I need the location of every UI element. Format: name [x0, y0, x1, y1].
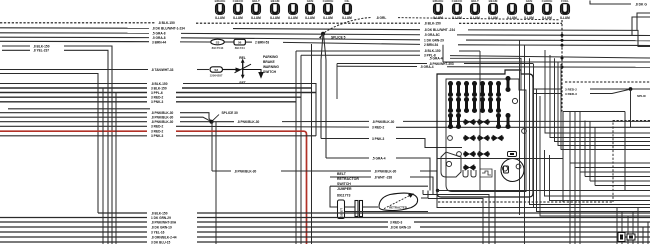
- wire 3 RED-2 right from block: [533, 88, 562, 90]
- svg-text:FUEL: FUEL: [561, 0, 569, 3]
- svg-text:.8 PNK/BLK-30: .8 PNK/BLK-30: [151, 116, 174, 120]
- svg-text:CHOKE: CHOKE: [323, 0, 334, 3]
- indicator lamp L5: [289, 4, 298, 15]
- fuse block small circles: [448, 136, 453, 141]
- vertical v5 x316: [315, 84, 317, 136]
- wire y66 right: [447, 66, 650, 69]
- wire 3 RED-3 diagonal to dot: [590, 90, 629, 94]
- junction dot jumper: [436, 189, 439, 192]
- wire 3 YEL-16 bottom left: [0, 231, 147, 233]
- indicator lamp L4: [271, 4, 280, 15]
- wire A .8 BLK-150 dashed left: [0, 22, 156, 24]
- splice 30 junction: [210, 120, 214, 124]
- wire .8 PNK/WHT-30A bottom right: [197, 221, 650, 223]
- svg-text:3 RED-2: 3 RED-2: [565, 87, 577, 91]
- svg-text:.8 BLK-150: .8 BLK-150: [158, 21, 175, 25]
- svg-text:2 BRN-53: 2 BRN-53: [255, 41, 269, 45]
- indicator lamp R5: [508, 4, 517, 15]
- wire x495 down: [494, 170, 496, 244]
- svg-text:ILLUM: ILLUM: [233, 16, 243, 20]
- svg-text:3 RED-2: 3 RED-2: [151, 130, 163, 134]
- wire 1 DK GRN-29 bottom right: [197, 217, 650, 219]
- indicator lamp L6: [306, 4, 315, 15]
- wire 3 RED-2 lower: [0, 125, 147, 127]
- svg-text:1 DK GRN-29: 1 DK GRN-29: [151, 216, 171, 220]
- vertical x628 drop: [627, 216, 629, 244]
- trunk junction dots: [561, 34, 564, 37]
- svg-text:2 BRN-54: 2 BRN-54: [424, 43, 438, 47]
- fuse block outline inner: [446, 79, 526, 192]
- component box right left edge: [562, 112, 564, 203]
- svg-text:.8 BLK-150: .8 BLK-150: [151, 211, 168, 215]
- svg-text:.8 DK BLU/WHT-1-234: .8 DK BLU/WHT-1-234: [152, 27, 185, 31]
- connector 12064287: [210, 67, 223, 72]
- vertical x519 long: [519, 41, 521, 216]
- vertical x524 long: [524, 45, 526, 244]
- vertical wire v1 x296: [295, 51, 297, 244]
- wire pnk/blk b diag to splice: [180, 117, 212, 122]
- svg-text:3 RED-3: 3 RED-3: [565, 92, 577, 96]
- belt retractor switch teardrop: [379, 193, 418, 211]
- wire jumper row cont: [281, 170, 371, 172]
- dashed right y82: [565, 81, 650, 83]
- svg-text:GEN: GEN: [307, 0, 314, 3]
- svg-text:ILLUM: ILLUM: [342, 16, 352, 20]
- wire 3 RED-2 right: [396, 126, 650, 128]
- splice dot right: [629, 87, 633, 91]
- wire splice 5 branch a: [321, 34, 323, 139]
- indicator lamp R7: [543, 4, 552, 15]
- indicator lamp R4: [489, 4, 498, 15]
- svg-text:SWITCH: SWITCH: [337, 182, 351, 186]
- svg-text:.8 PNK/WHT-30A: .8 PNK/WHT-30A: [151, 220, 177, 224]
- wire pnk/wht-303 left: [337, 63, 427, 65]
- svg-text:REL: REL: [239, 56, 246, 60]
- wire row4 cont: [176, 96, 301, 98]
- wire F .8 BLK-150 mid row: [296, 50, 420, 52]
- wire 3 DK BLU-15 bottom right: [197, 241, 650, 243]
- wire .5 GRA-4 right corner: [396, 158, 430, 191]
- svg-text:S3: S3: [216, 40, 220, 44]
- fuse block bottom cups: [463, 170, 468, 177]
- svg-text:8911773: 8911773: [337, 193, 350, 197]
- wire .8 PNK/WHT-30A bottom left: [0, 221, 147, 223]
- svg-text:56: 56: [238, 41, 242, 45]
- wire stub x337: [336, 64, 338, 100]
- wire row2 cont: [182, 87, 312, 89]
- indicator lamp R8: [561, 4, 570, 15]
- fuse block notch polygon: [441, 152, 461, 177]
- svg-text:3 RED-2: 3 RED-2: [151, 125, 163, 129]
- wire pnk/blk far right: [403, 120, 650, 122]
- svg-text:JUMPER: JUMPER: [337, 187, 352, 191]
- wire splice 5 branch b: [324, 34, 327, 158]
- wire .8 YEL-237 corner x108: [64, 50, 108, 244]
- svg-text:ILLUM: ILLUM: [215, 16, 225, 20]
- splice 5 junction: [321, 32, 325, 36]
- svg-text:CHECK: CHECK: [452, 0, 464, 3]
- wire y194.5 drop: [423, 190, 489, 244]
- svg-text:ILLUM: ILLUM: [251, 16, 261, 20]
- svg-text:1 DK GRN-29: 1 DK GRN-29: [424, 38, 444, 42]
- wire 3 RED-2 red corner: [176, 131, 307, 244]
- wire 3 RED-2 to splice dot: [590, 88, 650, 90]
- component box right right edge: [624, 112, 626, 191]
- wire C .5 GRA-8 left: [0, 32, 149, 34]
- wire B mid: [233, 29, 420, 30]
- wire 1 DK GRN-29 bottom left: [0, 217, 147, 219]
- vertical x216: [215, 122, 217, 244]
- wire .8 BLK-150 bottom left: [98, 212, 147, 214]
- fuse block round connector: [501, 159, 524, 182]
- svg-text:ILLUM: ILLUM: [507, 16, 517, 20]
- wire bars link: [345, 206, 356, 208]
- svg-text:BELT: BELT: [252, 0, 260, 3]
- vertical x622 bottom: [621, 212, 623, 244]
- wire 3 PNK-3 lower: [0, 135, 147, 137]
- svg-text:3 PNK-3: 3 PNK-3: [151, 100, 163, 104]
- belt retractor box outline: [330, 186, 428, 207]
- wire D .5 GRA-8 left2: [0, 36, 149, 38]
- indicator lamp L1: [216, 4, 225, 15]
- svg-text:S3: S3: [214, 68, 218, 72]
- wire .8 BLK-150 bottom right: [197, 212, 650, 214]
- connector 891734: [234, 39, 245, 45]
- wire G right: [450, 56, 650, 58]
- wire .8 YEL-237 stub: [2, 49, 30, 51]
- wire to retractor switch: [363, 206, 379, 208]
- connector S1 8917543: [211, 39, 225, 45]
- wire .8 DK GRN top right: [590, 1, 631, 5]
- svg-text:SWITCH: SWITCH: [263, 70, 277, 74]
- svg-text:.8 TAN/WHT-33: .8 TAN/WHT-33: [151, 68, 174, 72]
- wire pnk/blk c to splice: [180, 121, 212, 123]
- svg-text:3 RED-2: 3 RED-2: [151, 96, 163, 100]
- svg-text:108377: 108377: [340, 207, 344, 216]
- wire pnk/blk joined: [212, 121, 235, 123]
- svg-text:BRAKE: BRAKE: [215, 0, 226, 3]
- retractor dashed arrow: [384, 195, 410, 208]
- svg-text:OIL: OIL: [345, 0, 350, 3]
- svg-text:PARKING: PARKING: [263, 55, 278, 59]
- svg-text:3 PNK-3: 3 PNK-3: [372, 137, 384, 141]
- wire row4 3 RED-2: [0, 96, 147, 98]
- svg-text:.8 DK GRN-19: .8 DK GRN-19: [390, 225, 411, 229]
- svg-text:3 RED-2: 3 RED-2: [372, 126, 384, 130]
- vertical x638 drop: [637, 208, 639, 244]
- wire through block x480: [479, 51, 481, 191]
- wire C mid: [181, 33, 420, 34]
- svg-text:ILLUM: ILLUM: [470, 16, 480, 20]
- wire y207.5 segment: [437, 191, 534, 208]
- svg-text:RETRACTED: RETRACTED: [389, 205, 407, 209]
- svg-text:ILLUM: ILLUM: [270, 16, 280, 20]
- indicator lamp R3: [471, 4, 480, 15]
- wire D mid: [181, 38, 420, 40]
- svg-text:3 RED-3: 3 RED-3: [390, 220, 402, 224]
- svg-text:.8 WHT -238: .8 WHT -238: [374, 175, 392, 179]
- wire F right: [459, 50, 480, 52]
- wire arrow into switch: [223, 69, 236, 71]
- svg-text:GEN: GEN: [526, 0, 533, 3]
- indicator lamp L7: [324, 4, 333, 15]
- wire .8 BLK-150 short stub: [2, 45, 30, 47]
- wire B .8 DK BLU/WHT-234 left: [0, 27, 149, 29]
- wire right y62: [443, 61, 650, 63]
- wire B right corner: [468, 30, 650, 47]
- parking brake switch lever: [242, 61, 244, 77]
- svg-text:.5 GRA-8C: .5 GRA-8C: [424, 33, 440, 37]
- svg-text:BRAKE: BRAKE: [263, 60, 276, 64]
- svg-text:.5 GRA-4: .5 GRA-4: [372, 156, 386, 160]
- vertical x617 bottom: [616, 208, 618, 244]
- wire .8 WHT -238: [330, 176, 371, 178]
- wire y190.5 long: [438, 190, 650, 192]
- wire .8 ORN/BLK-2-44 bottom left: [0, 236, 147, 238]
- wire pnk/blk b: [0, 116, 147, 118]
- wire 3 RED-2 red hot: [0, 130, 147, 132]
- indicator lamp L3: [252, 4, 261, 15]
- stub wire right edge y13: [637, 13, 650, 30]
- wire A dashed mid: [196, 22, 420, 24]
- indicator lamp L2: [234, 4, 243, 15]
- fuse block terminal grid: [448, 76, 511, 129]
- fusible link component: [618, 233, 635, 242]
- svg-text:CHECK: CHECK: [233, 0, 245, 3]
- cascade left verticals: [545, 150, 650, 196]
- wire .8 DK GRN-19 bottom right: [197, 226, 650, 228]
- wire jumper right corner: [420, 171, 437, 191]
- svg-text:.8 DK BLU/WHT -234: .8 DK BLU/WHT -234: [424, 28, 455, 32]
- wire 3 PNK-3 resumed: [321, 138, 369, 140]
- svg-text:.8 PNK/BLK-30: .8 PNK/BLK-30: [234, 169, 257, 173]
- svg-text:3 YEL-16: 3 YEL-16: [151, 230, 165, 234]
- svg-text:SPLIC: SPLIC: [637, 94, 647, 98]
- wire branch corner x98: [0, 74, 98, 214]
- wire 3 PNK-3 lower cont: [176, 135, 316, 137]
- connector bar 108377: [338, 200, 345, 219]
- svg-text:.8 DK GRN-19: .8 DK GRN-19: [151, 225, 172, 229]
- svg-text:3 PNK-3: 3 PNK-3: [151, 134, 163, 138]
- cascade fanA: [545, 50, 650, 133]
- svg-text:ILLUM: ILLUM: [323, 16, 333, 20]
- wire pnk/wht-303 right: [464, 63, 533, 65]
- wire E right: [458, 44, 650, 47]
- switch blade diagonal: [235, 64, 252, 73]
- indicator lamp R2: [453, 4, 462, 15]
- wire E between connectors: [225, 41, 234, 43]
- wire A dashed right: [459, 22, 562, 24]
- stub wire right edge y17 to C: [632, 17, 650, 35]
- wire tan/wht to connector: [197, 69, 209, 71]
- wire row1 cont corner v5: [183, 84, 316, 136]
- svg-text:.8 BLK-150: .8 BLK-150: [151, 82, 168, 86]
- label 3 RED-3 bottom: [388, 219, 414, 224]
- dashed bottom y202: [438, 201, 613, 203]
- fuse block fuses: [463, 119, 504, 171]
- svg-text:.8 PNK/BLK-30: .8 PNK/BLK-30: [151, 111, 174, 115]
- vertical x633 drop: [632, 212, 634, 244]
- dashed corner x613: [613, 121, 650, 203]
- svg-text:.8 ORN/BLK-2-44: .8 ORN/BLK-2-44: [151, 235, 177, 239]
- wire D right: [466, 39, 650, 42]
- svg-text:SPLICE 30: SPLICE 30: [222, 111, 238, 115]
- cascade fanB: [570, 112, 650, 244]
- svg-text:8917543: 8917543: [212, 46, 224, 50]
- svg-text:CHOKE: CHOKE: [542, 0, 553, 3]
- wire wht right corner: [410, 177, 433, 195]
- wire E 2 BRN-53 seg: [246, 41, 253, 43]
- wire .8 TAN/WHT-33: [0, 69, 148, 71]
- fuse block outline outer: [437, 70, 533, 197]
- svg-text:3 BRN-44: 3 BRN-44: [152, 40, 166, 44]
- svg-text:.8 BLK-150: .8 BLK-150: [424, 49, 441, 53]
- wire hook x443: [442, 45, 444, 62]
- connector half bars: [355, 201, 358, 217]
- fuse block squiggle: [480, 169, 492, 177]
- svg-text:BRAKE: BRAKE: [433, 0, 444, 3]
- wire row3 3 PPL-6: [0, 92, 147, 94]
- svg-text:.8 DK G: .8 DK G: [635, 2, 647, 6]
- wire .8 ORN/BLK-2-44 bottom right: [197, 236, 650, 238]
- wire 3 RED-2 lower cont: [176, 125, 369, 128]
- splice 30 leader line: [212, 115, 220, 122]
- vertical x648 drop: [647, 222, 649, 244]
- wire C right: [457, 34, 650, 37]
- svg-text:BEAM: BEAM: [489, 0, 498, 3]
- wire .5 GRA-4 resumed: [326, 157, 369, 159]
- wire 3 DK BLU-15 bottom left: [0, 241, 147, 243]
- vertical x643 drop: [642, 227, 644, 244]
- svg-text:12064287: 12064287: [210, 73, 223, 77]
- indicator lamp R6: [525, 4, 534, 15]
- wire row1 .8 BLK-150: [0, 83, 147, 85]
- wire .8 BLK-150 stub corner x112: [64, 46, 112, 244]
- svg-text:BELT: BELT: [471, 0, 479, 3]
- wire y66 left: [337, 65, 417, 67]
- svg-text:.5 GRA-8: .5 GRA-8: [152, 32, 166, 36]
- wire E 3 BRN-44 left: [0, 40, 149, 42]
- wire pnk/blk a: [0, 112, 147, 114]
- wire pnk/blk-30 jumper row: [212, 170, 231, 172]
- svg-text:WARNING: WARNING: [263, 65, 279, 69]
- wire row3 cont: [176, 92, 316, 94]
- wire pnk/blk c: [0, 121, 147, 123]
- svg-text:.8 PNK/BLK-30: .8 PNK/BLK-30: [151, 120, 174, 124]
- wire .8 GRA dashed diagonal: [325, 17, 373, 32]
- label .8 DK GRN-19 bottom2: [388, 224, 420, 229]
- svg-text:RETRACTOR: RETRACTOR: [337, 177, 359, 181]
- wire pnk/blk a corner to splice: [180, 113, 212, 122]
- svg-text:3 PPL-6: 3 PPL-6: [151, 91, 163, 95]
- vertical x116: [115, 93, 117, 244]
- wire inside block y158.5: [437, 158, 563, 160]
- component box right top: [563, 111, 625, 113]
- indicator lamp L8: [343, 4, 352, 15]
- svg-text:SPLICE 5: SPLICE 5: [331, 36, 346, 40]
- svg-text:3 BLK-150: 3 BLK-150: [151, 86, 167, 90]
- wire .8 GRA dashed right: [398, 18, 560, 20]
- svg-text:BELT: BELT: [337, 172, 347, 176]
- wire row5 cont: [176, 101, 296, 103]
- svg-text:.8 PNK/BLK-30: .8 PNK/BLK-30: [237, 120, 260, 124]
- svg-text:.8 BLK-150: .8 BLK-150: [424, 22, 441, 26]
- svg-text:ILLUM: ILLUM: [305, 16, 315, 20]
- svg-text:.8 YEL-237: .8 YEL-237: [33, 49, 49, 53]
- wire .8 DK GRN-19 bottom left: [0, 226, 147, 228]
- wire drop from right splice: [630, 89, 632, 127]
- switch output wire with ground arrow: [243, 70, 261, 73]
- wire retractor right link: [421, 191, 428, 199]
- wire E to connector S1: [180, 41, 210, 43]
- wire row2 3 BLK-150: [0, 87, 147, 89]
- svg-text:.8 PNK/BLK-30: .8 PNK/BLK-30: [372, 120, 395, 124]
- svg-text:.5 GRA-4: .5 GRA-4: [429, 57, 443, 61]
- wire 3 YEL-16 bottom right: [197, 231, 650, 233]
- svg-text:.8 PNK/BLK-30: .8 PNK/BLK-30: [374, 169, 397, 173]
- svg-text:BEAM: BEAM: [271, 0, 280, 3]
- svg-text:891734: 891734: [235, 46, 245, 50]
- splice 30 drop wire: [211, 122, 213, 171]
- wire 3 PNK-3 right jog: [396, 139, 462, 148]
- svg-text:.8 GRL: .8 GRL: [376, 16, 386, 20]
- svg-text:ILLUM: ILLUM: [560, 16, 570, 20]
- wire y198.5 drop: [428, 195, 483, 244]
- wire stub row y109: [8, 108, 150, 110]
- wire E mid: [283, 42, 420, 44]
- wire pnk/blk joined cont: [282, 120, 369, 122]
- wire teardrop base: [345, 211, 428, 213]
- wire G 3 PPL-8 mid row: [301, 54, 420, 56]
- indicator lamp R1: [434, 4, 443, 15]
- vertical x103: [102, 88, 104, 244]
- vertical wire v2 x301: [300, 55, 302, 244]
- svg-text:ILLUM: ILLUM: [288, 16, 298, 20]
- svg-text:.5 GRA-4: .5 GRA-4: [420, 65, 434, 69]
- vertical wire v4 x311.5: [311, 44, 313, 244]
- wire 3 RED-3 right from block: [533, 93, 562, 95]
- wire row5 3 PNK-3: [0, 101, 147, 103]
- wire gra-4 block right corner: [450, 58, 521, 90]
- dashed trunk x562: [561, 20, 563, 112]
